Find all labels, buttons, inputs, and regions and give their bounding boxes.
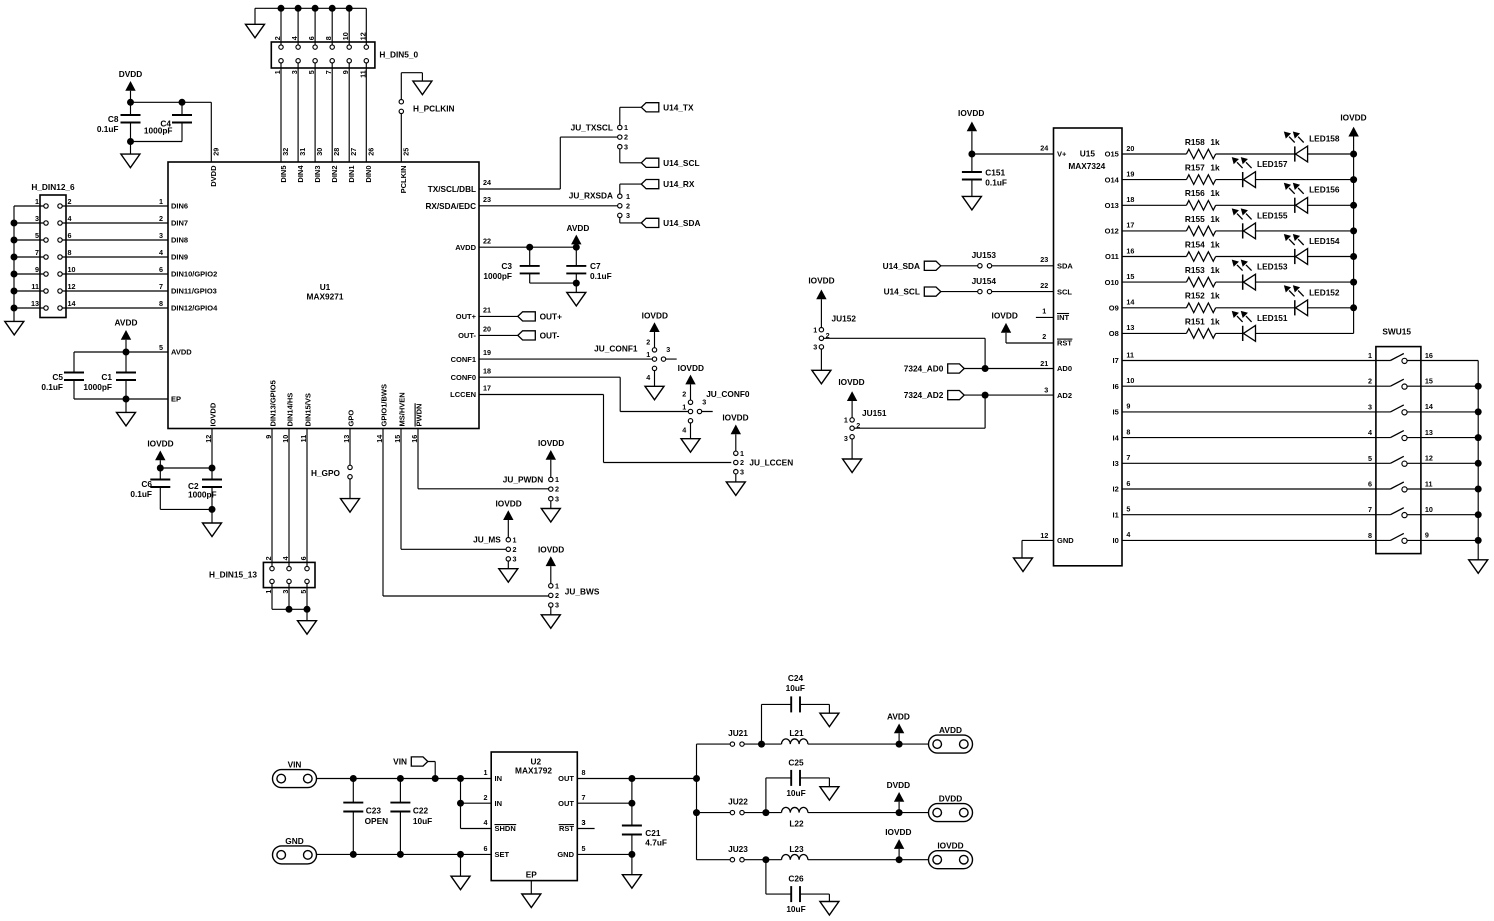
svg-text:8: 8 [324, 36, 333, 40]
svg-text:LED152: LED152 [1309, 287, 1340, 297]
svg-text:4: 4 [68, 214, 72, 223]
svg-text:DIN9: DIN9 [171, 253, 188, 262]
svg-text:1: 1 [682, 403, 686, 412]
svg-text:0.1uF: 0.1uF [985, 177, 1007, 187]
svg-text:AVDD: AVDD [566, 223, 589, 233]
svg-text:C151: C151 [985, 168, 1005, 178]
svg-text:14: 14 [68, 299, 76, 308]
svg-text:LED153: LED153 [1257, 262, 1288, 272]
svg-text:DIN1: DIN1 [347, 166, 356, 183]
svg-text:JU22: JU22 [728, 797, 748, 807]
svg-text:6: 6 [1368, 480, 1372, 489]
svg-text:I4: I4 [1113, 433, 1120, 442]
svg-text:3: 3 [624, 142, 628, 151]
svg-text:MAX9271: MAX9271 [307, 292, 344, 302]
svg-text:R152: R152 [1185, 291, 1205, 301]
svg-text:C8: C8 [108, 114, 119, 124]
svg-text:DIN12/GPIO4: DIN12/GPIO4 [171, 304, 218, 313]
svg-text:9: 9 [1425, 531, 1429, 540]
svg-text:R157: R157 [1185, 163, 1205, 173]
svg-text:10: 10 [341, 32, 350, 40]
svg-text:U14_SDA: U14_SDA [883, 261, 920, 271]
svg-text:R155: R155 [1185, 214, 1205, 224]
svg-text:LED151: LED151 [1257, 313, 1288, 323]
svg-text:AVDD: AVDD [115, 318, 138, 328]
svg-text:OUT-: OUT- [540, 330, 560, 340]
svg-text:I5: I5 [1113, 408, 1119, 417]
svg-text:L21: L21 [789, 728, 804, 738]
svg-text:JU_BWS: JU_BWS [565, 586, 600, 596]
svg-text:11: 11 [1425, 479, 1433, 488]
svg-text:DIN2: DIN2 [330, 166, 339, 183]
svg-text:3: 3 [281, 590, 290, 594]
svg-text:2: 2 [555, 485, 559, 494]
svg-text:JU_LCCEN: JU_LCCEN [749, 458, 793, 468]
svg-text:2: 2 [273, 36, 282, 40]
svg-text:I3: I3 [1113, 459, 1119, 468]
svg-text:32: 32 [281, 148, 290, 156]
svg-text:IOVDD: IOVDD [209, 402, 218, 426]
svg-text:3: 3 [35, 214, 39, 223]
svg-text:AD0: AD0 [1057, 364, 1072, 373]
svg-text:O8: O8 [1109, 329, 1119, 338]
svg-text:DIN5: DIN5 [279, 166, 288, 183]
svg-text:I7: I7 [1113, 356, 1119, 365]
svg-text:10uF: 10uF [413, 816, 432, 826]
svg-text:1k: 1k [1210, 214, 1220, 224]
svg-text:GND: GND [557, 850, 574, 859]
svg-text:5: 5 [582, 844, 586, 853]
svg-text:28: 28 [332, 148, 341, 156]
svg-text:7: 7 [324, 70, 333, 74]
svg-text:DIN7: DIN7 [171, 219, 188, 228]
svg-text:1: 1 [513, 535, 517, 544]
svg-text:R156: R156 [1185, 188, 1205, 198]
svg-text:VIN: VIN [393, 757, 407, 767]
svg-text:INT: INT [1057, 313, 1070, 322]
svg-text:OUT: OUT [558, 774, 574, 783]
svg-text:8: 8 [159, 299, 163, 308]
svg-text:C25: C25 [788, 757, 804, 767]
svg-text:1k: 1k [1210, 137, 1220, 147]
svg-text:U14_SCL: U14_SCL [663, 158, 699, 168]
svg-text:2: 2 [626, 201, 630, 210]
svg-text:IOVDD: IOVDD [147, 439, 173, 449]
svg-text:18: 18 [483, 366, 491, 375]
svg-text:AVDD: AVDD [939, 725, 962, 735]
svg-text:C22: C22 [413, 806, 429, 816]
svg-text:29: 29 [211, 148, 220, 156]
svg-text:RST: RST [1057, 339, 1072, 348]
svg-text:1k: 1k [1210, 163, 1220, 173]
svg-text:LED154: LED154 [1309, 236, 1340, 246]
svg-text:C5: C5 [52, 372, 63, 382]
svg-text:IOVDD: IOVDD [937, 841, 963, 851]
svg-text:1: 1 [1368, 351, 1372, 360]
svg-text:4: 4 [1368, 428, 1372, 437]
svg-text:4: 4 [646, 373, 650, 382]
svg-text:14: 14 [1126, 298, 1134, 307]
svg-text:EP: EP [171, 395, 181, 404]
svg-text:2: 2 [826, 331, 830, 340]
svg-text:1: 1 [1042, 307, 1046, 316]
svg-text:IOVDD: IOVDD [722, 412, 748, 422]
svg-text:12: 12 [68, 282, 76, 291]
svg-text:5: 5 [299, 590, 308, 594]
svg-text:20: 20 [483, 325, 491, 334]
svg-text:3: 3 [555, 601, 559, 610]
svg-text:23: 23 [1040, 255, 1048, 264]
svg-text:3: 3 [666, 345, 670, 354]
svg-text:3: 3 [290, 70, 299, 74]
svg-text:1: 1 [555, 475, 559, 484]
svg-text:10: 10 [281, 435, 290, 443]
svg-text:7: 7 [1126, 453, 1130, 462]
svg-text:9: 9 [35, 265, 39, 274]
svg-text:11: 11 [299, 435, 308, 443]
svg-text:JU153: JU153 [972, 250, 997, 260]
svg-text:CONF1: CONF1 [451, 355, 476, 364]
svg-text:SET: SET [495, 850, 510, 859]
svg-text:VIN: VIN [288, 760, 302, 770]
svg-text:0.1uF: 0.1uF [590, 271, 612, 281]
svg-text:9: 9 [264, 435, 273, 439]
svg-text:I6: I6 [1113, 382, 1119, 391]
svg-text:7: 7 [35, 248, 39, 257]
svg-text:31: 31 [298, 148, 307, 156]
svg-text:10uF: 10uF [786, 683, 805, 693]
svg-text:15: 15 [1425, 377, 1433, 386]
svg-text:AVDD: AVDD [455, 243, 476, 252]
svg-text:3: 3 [513, 555, 517, 564]
svg-text:3: 3 [555, 494, 559, 503]
svg-text:2: 2 [682, 390, 686, 399]
svg-text:1: 1 [264, 590, 273, 594]
svg-text:2: 2 [513, 545, 517, 554]
svg-text:JU152: JU152 [832, 314, 857, 324]
svg-text:10: 10 [1126, 376, 1134, 385]
svg-text:JU23: JU23 [728, 844, 748, 854]
svg-text:R151: R151 [1185, 316, 1205, 326]
svg-text:H_DIN5_0: H_DIN5_0 [379, 50, 418, 60]
svg-text:1k: 1k [1210, 239, 1220, 249]
svg-text:8: 8 [68, 248, 72, 257]
svg-text:1: 1 [273, 70, 282, 74]
svg-text:CONF0: CONF0 [451, 373, 476, 382]
svg-text:IOVDD: IOVDD [678, 363, 704, 373]
svg-text:O12: O12 [1105, 227, 1119, 236]
svg-text:17: 17 [483, 384, 491, 393]
svg-text:19: 19 [1126, 169, 1134, 178]
svg-text:19: 19 [483, 348, 491, 357]
svg-text:AVDD: AVDD [887, 712, 910, 722]
svg-text:7324_AD2: 7324_AD2 [904, 390, 944, 400]
svg-text:2: 2 [159, 214, 163, 223]
svg-text:IOVDD: IOVDD [642, 311, 668, 321]
svg-text:5: 5 [35, 231, 39, 240]
svg-text:4: 4 [484, 818, 488, 827]
svg-text:2: 2 [555, 591, 559, 600]
svg-text:12: 12 [204, 435, 213, 443]
svg-text:GPIO1/BWS: GPIO1/BWS [380, 384, 389, 427]
svg-text:3: 3 [1044, 386, 1048, 395]
svg-text:I1: I1 [1113, 510, 1119, 519]
svg-text:1: 1 [844, 416, 848, 425]
svg-text:13: 13 [1425, 428, 1433, 437]
svg-text:2: 2 [646, 337, 650, 346]
svg-text:JU_CONF1: JU_CONF1 [594, 343, 638, 353]
svg-text:U15: U15 [1080, 149, 1096, 159]
svg-text:TX/SCL/DBL: TX/SCL/DBL [428, 185, 476, 194]
svg-text:SWU15: SWU15 [1382, 326, 1411, 336]
svg-text:IOVDD: IOVDD [1340, 112, 1366, 122]
svg-text:U14_RX: U14_RX [663, 179, 695, 189]
svg-text:IOVDD: IOVDD [538, 438, 564, 448]
svg-text:1: 1 [740, 449, 744, 458]
svg-text:15: 15 [393, 435, 402, 443]
svg-text:2: 2 [68, 197, 72, 206]
svg-text:7: 7 [1368, 505, 1372, 514]
svg-text:LED157: LED157 [1257, 159, 1288, 169]
svg-text:DIN6: DIN6 [171, 202, 188, 211]
svg-text:24: 24 [1040, 144, 1048, 153]
svg-text:IOVDD: IOVDD [495, 498, 521, 508]
svg-text:18: 18 [1126, 195, 1134, 204]
svg-text:22: 22 [1040, 281, 1048, 290]
svg-text:DVDD: DVDD [119, 69, 143, 79]
svg-text:16: 16 [1126, 246, 1134, 255]
svg-text:OUT: OUT [558, 799, 574, 808]
svg-text:DIN0: DIN0 [364, 166, 373, 183]
svg-text:H_DIN15_13: H_DIN15_13 [209, 570, 257, 580]
svg-text:R153: R153 [1185, 265, 1205, 275]
svg-text:3: 3 [1368, 402, 1372, 411]
svg-text:4: 4 [682, 426, 686, 435]
svg-text:C1: C1 [101, 372, 112, 382]
svg-text:O10: O10 [1105, 278, 1119, 287]
svg-text:30: 30 [315, 148, 324, 156]
svg-text:10: 10 [1425, 505, 1433, 514]
svg-text:1: 1 [624, 123, 628, 132]
svg-text:2: 2 [484, 793, 488, 802]
svg-text:1: 1 [484, 768, 488, 777]
svg-text:JU21: JU21 [728, 728, 748, 738]
svg-text:DIN10/GPIO2: DIN10/GPIO2 [171, 270, 217, 279]
svg-text:JU154: JU154 [972, 276, 997, 286]
svg-text:12: 12 [358, 32, 367, 40]
svg-text:H_DIN12_6: H_DIN12_6 [31, 182, 75, 192]
svg-text:IOVDD: IOVDD [958, 108, 984, 118]
svg-text:1k: 1k [1210, 291, 1220, 301]
svg-text:12: 12 [1040, 531, 1048, 540]
svg-text:1: 1 [646, 350, 650, 359]
svg-text:LED158: LED158 [1309, 134, 1340, 144]
svg-text:IOVDD: IOVDD [992, 311, 1018, 321]
svg-text:O9: O9 [1109, 304, 1119, 313]
svg-text:OUT+: OUT+ [540, 311, 563, 321]
svg-text:JU151: JU151 [862, 408, 887, 418]
svg-text:1k: 1k [1210, 316, 1220, 326]
svg-text:4: 4 [281, 556, 290, 560]
svg-text:C21: C21 [645, 828, 661, 838]
svg-text:OUT-: OUT- [458, 331, 476, 340]
svg-text:AD2: AD2 [1057, 391, 1072, 400]
svg-text:JU_RXSDA: JU_RXSDA [569, 191, 613, 201]
svg-text:1: 1 [35, 197, 39, 206]
svg-text:23: 23 [483, 195, 491, 204]
svg-text:JU_CONF0: JU_CONF0 [706, 389, 750, 399]
svg-text:OUT+: OUT+ [456, 312, 477, 321]
svg-text:1000pF: 1000pF [188, 489, 217, 499]
svg-text:DVDD: DVDD [887, 780, 911, 790]
svg-text:4: 4 [1126, 530, 1130, 539]
svg-text:LED155: LED155 [1257, 210, 1288, 220]
svg-text:9: 9 [1126, 402, 1130, 411]
svg-text:O13: O13 [1105, 201, 1119, 210]
svg-text:0.1uF: 0.1uF [97, 124, 119, 134]
svg-text:DIN3: DIN3 [313, 166, 322, 183]
svg-text:C23: C23 [366, 806, 382, 816]
svg-text:C26: C26 [788, 874, 804, 884]
svg-text:11: 11 [358, 70, 367, 78]
svg-text:3: 3 [740, 467, 744, 476]
svg-text:4.7uF: 4.7uF [645, 838, 667, 848]
svg-text:IN: IN [495, 799, 503, 808]
svg-text:5: 5 [307, 70, 316, 74]
svg-text:PCLKIN: PCLKIN [399, 166, 408, 194]
svg-text:SCL: SCL [1057, 287, 1072, 296]
svg-text:3: 3 [813, 343, 817, 352]
svg-text:DIN13/GPIO5: DIN13/GPIO5 [269, 380, 278, 426]
svg-text:GND: GND [1057, 536, 1074, 545]
svg-text:C3: C3 [501, 261, 512, 271]
svg-text:IOVDD: IOVDD [885, 827, 911, 837]
svg-text:27: 27 [349, 148, 358, 156]
svg-text:U14_SCL: U14_SCL [884, 287, 920, 297]
svg-text:DIN15/VS: DIN15/VS [304, 393, 313, 426]
svg-text:SHDN: SHDN [495, 824, 516, 833]
svg-text:2: 2 [1368, 377, 1372, 386]
svg-text:17: 17 [1126, 221, 1134, 230]
svg-text:H_PCLKIN: H_PCLKIN [413, 104, 455, 114]
svg-text:MS/HVEN: MS/HVEN [398, 392, 407, 426]
svg-text:15: 15 [1126, 272, 1134, 281]
svg-text:1: 1 [626, 192, 630, 201]
svg-text:6: 6 [299, 556, 308, 560]
svg-text:1k: 1k [1210, 265, 1220, 275]
svg-text:3: 3 [844, 434, 848, 443]
svg-text:8: 8 [1126, 427, 1130, 436]
svg-text:L22: L22 [789, 819, 804, 829]
svg-text:21: 21 [1040, 359, 1048, 368]
svg-text:GND: GND [285, 836, 303, 846]
svg-text:16: 16 [410, 435, 419, 443]
svg-text:10uF: 10uF [786, 788, 805, 798]
svg-text:5: 5 [1126, 505, 1130, 514]
svg-text:O11: O11 [1105, 252, 1119, 261]
svg-text:2: 2 [624, 133, 628, 142]
svg-text:4: 4 [290, 36, 299, 40]
svg-text:2: 2 [856, 421, 860, 430]
svg-text:1: 1 [555, 581, 559, 590]
svg-text:IOVDD: IOVDD [838, 377, 864, 387]
svg-text:V+: V+ [1057, 150, 1067, 159]
svg-text:IOVDD: IOVDD [538, 545, 564, 555]
svg-text:1: 1 [813, 325, 817, 334]
svg-text:7: 7 [159, 282, 163, 291]
svg-text:DIN11/GPIO3: DIN11/GPIO3 [171, 287, 217, 296]
svg-text:6: 6 [307, 36, 316, 40]
svg-text:R158: R158 [1185, 137, 1205, 147]
svg-text:13: 13 [31, 299, 39, 308]
svg-text:7324_AD0: 7324_AD0 [904, 364, 944, 374]
svg-text:LED156: LED156 [1309, 185, 1340, 195]
svg-text:1000pF: 1000pF [83, 382, 112, 392]
svg-text:GPO: GPO [347, 410, 356, 427]
svg-text:11: 11 [31, 282, 39, 291]
svg-text:4: 4 [159, 248, 163, 257]
svg-text:DIN4: DIN4 [296, 165, 305, 183]
svg-text:IN: IN [495, 774, 503, 783]
svg-text:C24: C24 [788, 673, 804, 683]
svg-text:9: 9 [341, 70, 350, 74]
svg-text:RX/SDA/EDC: RX/SDA/EDC [426, 202, 477, 211]
svg-text:11: 11 [1126, 350, 1134, 359]
svg-text:I0: I0 [1113, 536, 1119, 545]
svg-text:22: 22 [483, 236, 491, 245]
svg-text:L23: L23 [789, 844, 804, 854]
svg-text:1: 1 [159, 197, 163, 206]
svg-text:O15: O15 [1105, 150, 1119, 159]
svg-text:DIN14/HS: DIN14/HS [286, 393, 295, 427]
svg-text:MAX1792: MAX1792 [515, 765, 552, 775]
svg-text:13: 13 [342, 435, 351, 443]
svg-text:10: 10 [68, 265, 76, 274]
svg-text:RST: RST [559, 824, 574, 833]
svg-text:0.1uF: 0.1uF [41, 382, 63, 392]
svg-text:20: 20 [1126, 144, 1134, 153]
svg-text:6: 6 [1126, 479, 1130, 488]
svg-text:LCCEN: LCCEN [450, 390, 476, 399]
svg-text:U14_TX: U14_TX [663, 102, 694, 112]
svg-text:26: 26 [366, 148, 375, 156]
svg-text:U14_SDA: U14_SDA [663, 218, 700, 228]
svg-text:3: 3 [582, 818, 586, 827]
svg-text:AVDD: AVDD [171, 348, 192, 357]
svg-text:6: 6 [68, 231, 72, 240]
svg-text:MAX7324: MAX7324 [1068, 161, 1105, 171]
svg-text:2: 2 [740, 458, 744, 467]
svg-text:O14: O14 [1105, 175, 1120, 184]
svg-text:13: 13 [1126, 323, 1134, 332]
svg-text:R154: R154 [1185, 239, 1205, 249]
svg-text:C6: C6 [141, 479, 152, 489]
svg-text:8: 8 [582, 768, 586, 777]
svg-text:I2: I2 [1113, 485, 1119, 494]
svg-text:JU_MS: JU_MS [473, 535, 501, 545]
svg-text:C7: C7 [590, 261, 601, 271]
svg-text:3: 3 [626, 211, 630, 220]
svg-text:IOVDD: IOVDD [808, 275, 834, 285]
svg-text:7: 7 [582, 793, 586, 802]
svg-text:6: 6 [159, 265, 163, 274]
svg-text:10uF: 10uF [786, 904, 805, 914]
svg-text:2: 2 [264, 556, 273, 560]
svg-text:2: 2 [1042, 332, 1046, 341]
svg-text:5: 5 [159, 343, 163, 352]
svg-text:25: 25 [401, 148, 410, 156]
svg-text:JU_PWDN: JU_PWDN [503, 475, 544, 485]
